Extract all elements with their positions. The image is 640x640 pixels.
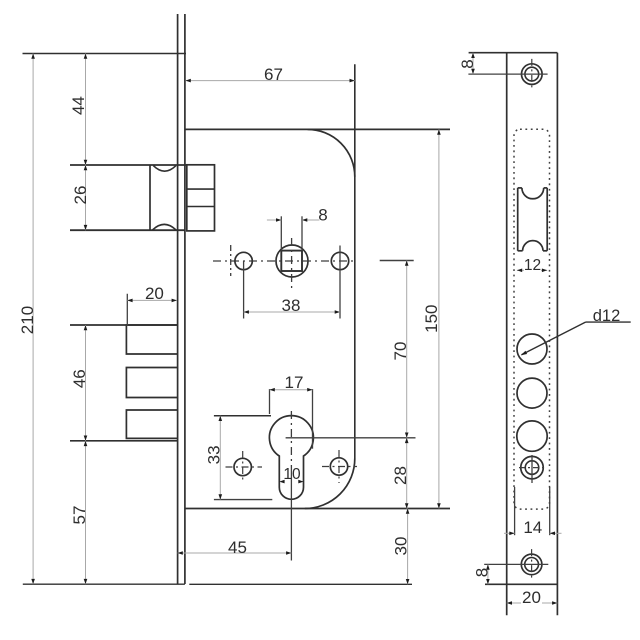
dimension 8 spindle (267, 206, 328, 225)
deadbolt plate 2 (126, 368, 177, 398)
dimension 210 top extension line (23, 53, 187, 55)
svg-text:17: 17 (285, 373, 304, 392)
svg-text:45: 45 (228, 538, 247, 557)
dimension 20 faceplate width (507, 588, 558, 607)
faceplate strip bottom edge + 8-dim extension (485, 583, 557, 585)
dimension 20 deadbolt extension line (126, 294, 128, 326)
dimension 10 (279, 466, 303, 483)
spindle horizontal dashed centerline (213, 260, 356, 262)
upper-left screw hole (235, 252, 252, 318)
svg-text:8: 8 (458, 59, 477, 68)
hole d12 #1 (517, 334, 547, 364)
dimension 28 (391, 438, 410, 509)
dimension 14 (504, 518, 562, 537)
deadbolt top edge + 46-dim extension line (70, 324, 178, 326)
dimension 33 extension lines (214, 416, 272, 500)
svg-text:44: 44 (69, 96, 88, 115)
latch cutout bottom edge with convex notch (518, 241, 548, 251)
svg-text:14: 14 (523, 518, 542, 537)
dimension 17 (270, 373, 313, 392)
latch cutout top edge with concave notch (518, 188, 548, 199)
spindle square 8x8 (281, 251, 302, 271)
dimension 45 (178, 538, 292, 557)
dimension 67 (186, 65, 355, 84)
svg-text:20: 20 (522, 588, 541, 607)
upper-right screw hole (331, 246, 348, 319)
svg-text:38: 38 (282, 296, 301, 315)
dimension 44 (69, 54, 88, 166)
svg-text:28: 28 (391, 466, 410, 485)
latch bolt head top concave arc (153, 166, 176, 172)
dimension 8 spindle square extension lines (281, 216, 302, 250)
deadbolt plate 3 (126, 410, 177, 438)
lock body right edge + 67-dim extension (354, 64, 356, 458)
lock body rounded top-right corner (308, 129, 355, 176)
svg-text:33: 33 (204, 445, 223, 464)
latch cutout right wall (546, 188, 548, 251)
deadbolt plate 1 (126, 325, 177, 354)
spindle vertical dashed centerline (291, 238, 293, 291)
dimension bottom extension line (210/57) (23, 583, 185, 585)
svg-text:67: 67 (264, 65, 283, 84)
bottom screw hole front view (521, 554, 542, 575)
lock body top edge + 150-dim extension (185, 128, 450, 130)
svg-text:12: 12 (524, 257, 541, 274)
faceplate side view (two vertical edge lines) (178, 14, 185, 584)
cylinder centerline extension down (45 dim) (290, 468, 292, 561)
svg-text:150: 150 (422, 305, 441, 333)
deadbolt bottom extension line (46/57 dims) (70, 440, 178, 442)
faceplate strip top edge + 8-dim extension (469, 52, 558, 54)
dimension 70 top extension line (380, 260, 414, 262)
svg-text:210: 210 (18, 306, 37, 334)
svg-text:57: 57 (70, 506, 89, 525)
svg-text:46: 46 (70, 369, 89, 388)
lock body bottom edge + 150/28-dim extension (185, 508, 450, 510)
top screw hole front view (522, 64, 543, 85)
screw hole crosshair (519, 455, 545, 483)
svg-text:30: 30 (392, 537, 411, 556)
dimension 57 (70, 441, 89, 584)
dimension 33 (204, 416, 223, 500)
euro profile cylinder outline (269, 416, 313, 500)
dimension 12 (517, 257, 547, 274)
svg-text:8: 8 (472, 568, 491, 577)
dimension 8 bottom-right (472, 564, 491, 584)
dimension 210 (18, 54, 37, 585)
svg-text:70: 70 (391, 342, 410, 361)
dimension 30 (392, 509, 411, 585)
label d12 with leader (521, 307, 631, 355)
cylinder horizontal centerline (70/28 extension) (286, 437, 416, 439)
bottom screw hole crosshair (484, 549, 548, 579)
dimension 150 (422, 129, 441, 508)
svg-text:20: 20 (145, 284, 164, 303)
dimension 70 (391, 261, 410, 438)
dimension 30 bottom extension line (189, 583, 412, 585)
spindle hole circle (276, 245, 308, 277)
dimension 46 (70, 325, 89, 441)
lower-right screw hole (322, 450, 357, 483)
hole d12 #2 (517, 378, 547, 408)
cylinder vertical dash-dot centerline (290, 411, 292, 468)
svg-text:8: 8 (318, 206, 327, 225)
dimension 14 extension lines (515, 487, 550, 535)
latch bolt head left edge (149, 165, 151, 230)
dimension 17 extension lines (270, 389, 313, 449)
latch tail block (3 cells) (187, 165, 215, 231)
latch bolt bottom edge + extension line (70, 229, 185, 231)
latch bolt head bottom concave arc (153, 224, 176, 229)
top screw hole crosshair (468, 59, 547, 89)
screw hole in faceplate (double circle) (521, 456, 544, 479)
dimension 8 top-right (458, 53, 477, 74)
dimension 38 (244, 296, 340, 315)
dimension 26 (71, 165, 90, 230)
svg-text:d12: d12 (593, 307, 621, 325)
latch bolt top edge + extension line (70, 164, 187, 166)
datum dash-dot mark left of upper-left screw hole (230, 245, 232, 276)
svg-text:10: 10 (283, 466, 301, 483)
lower-left screw hole (226, 451, 263, 483)
latch cutout left wall (517, 188, 519, 251)
svg-text:26: 26 (71, 186, 90, 205)
hole d12 #3 (517, 421, 547, 451)
dimension 20 deadbolt (127, 284, 177, 303)
faceplate strip left edge (506, 53, 508, 616)
faceplate strip right edge (556, 53, 558, 616)
dashed cutout rectangle in faceplate (514, 129, 550, 509)
lock body rounded bottom-right corner (305, 459, 355, 509)
